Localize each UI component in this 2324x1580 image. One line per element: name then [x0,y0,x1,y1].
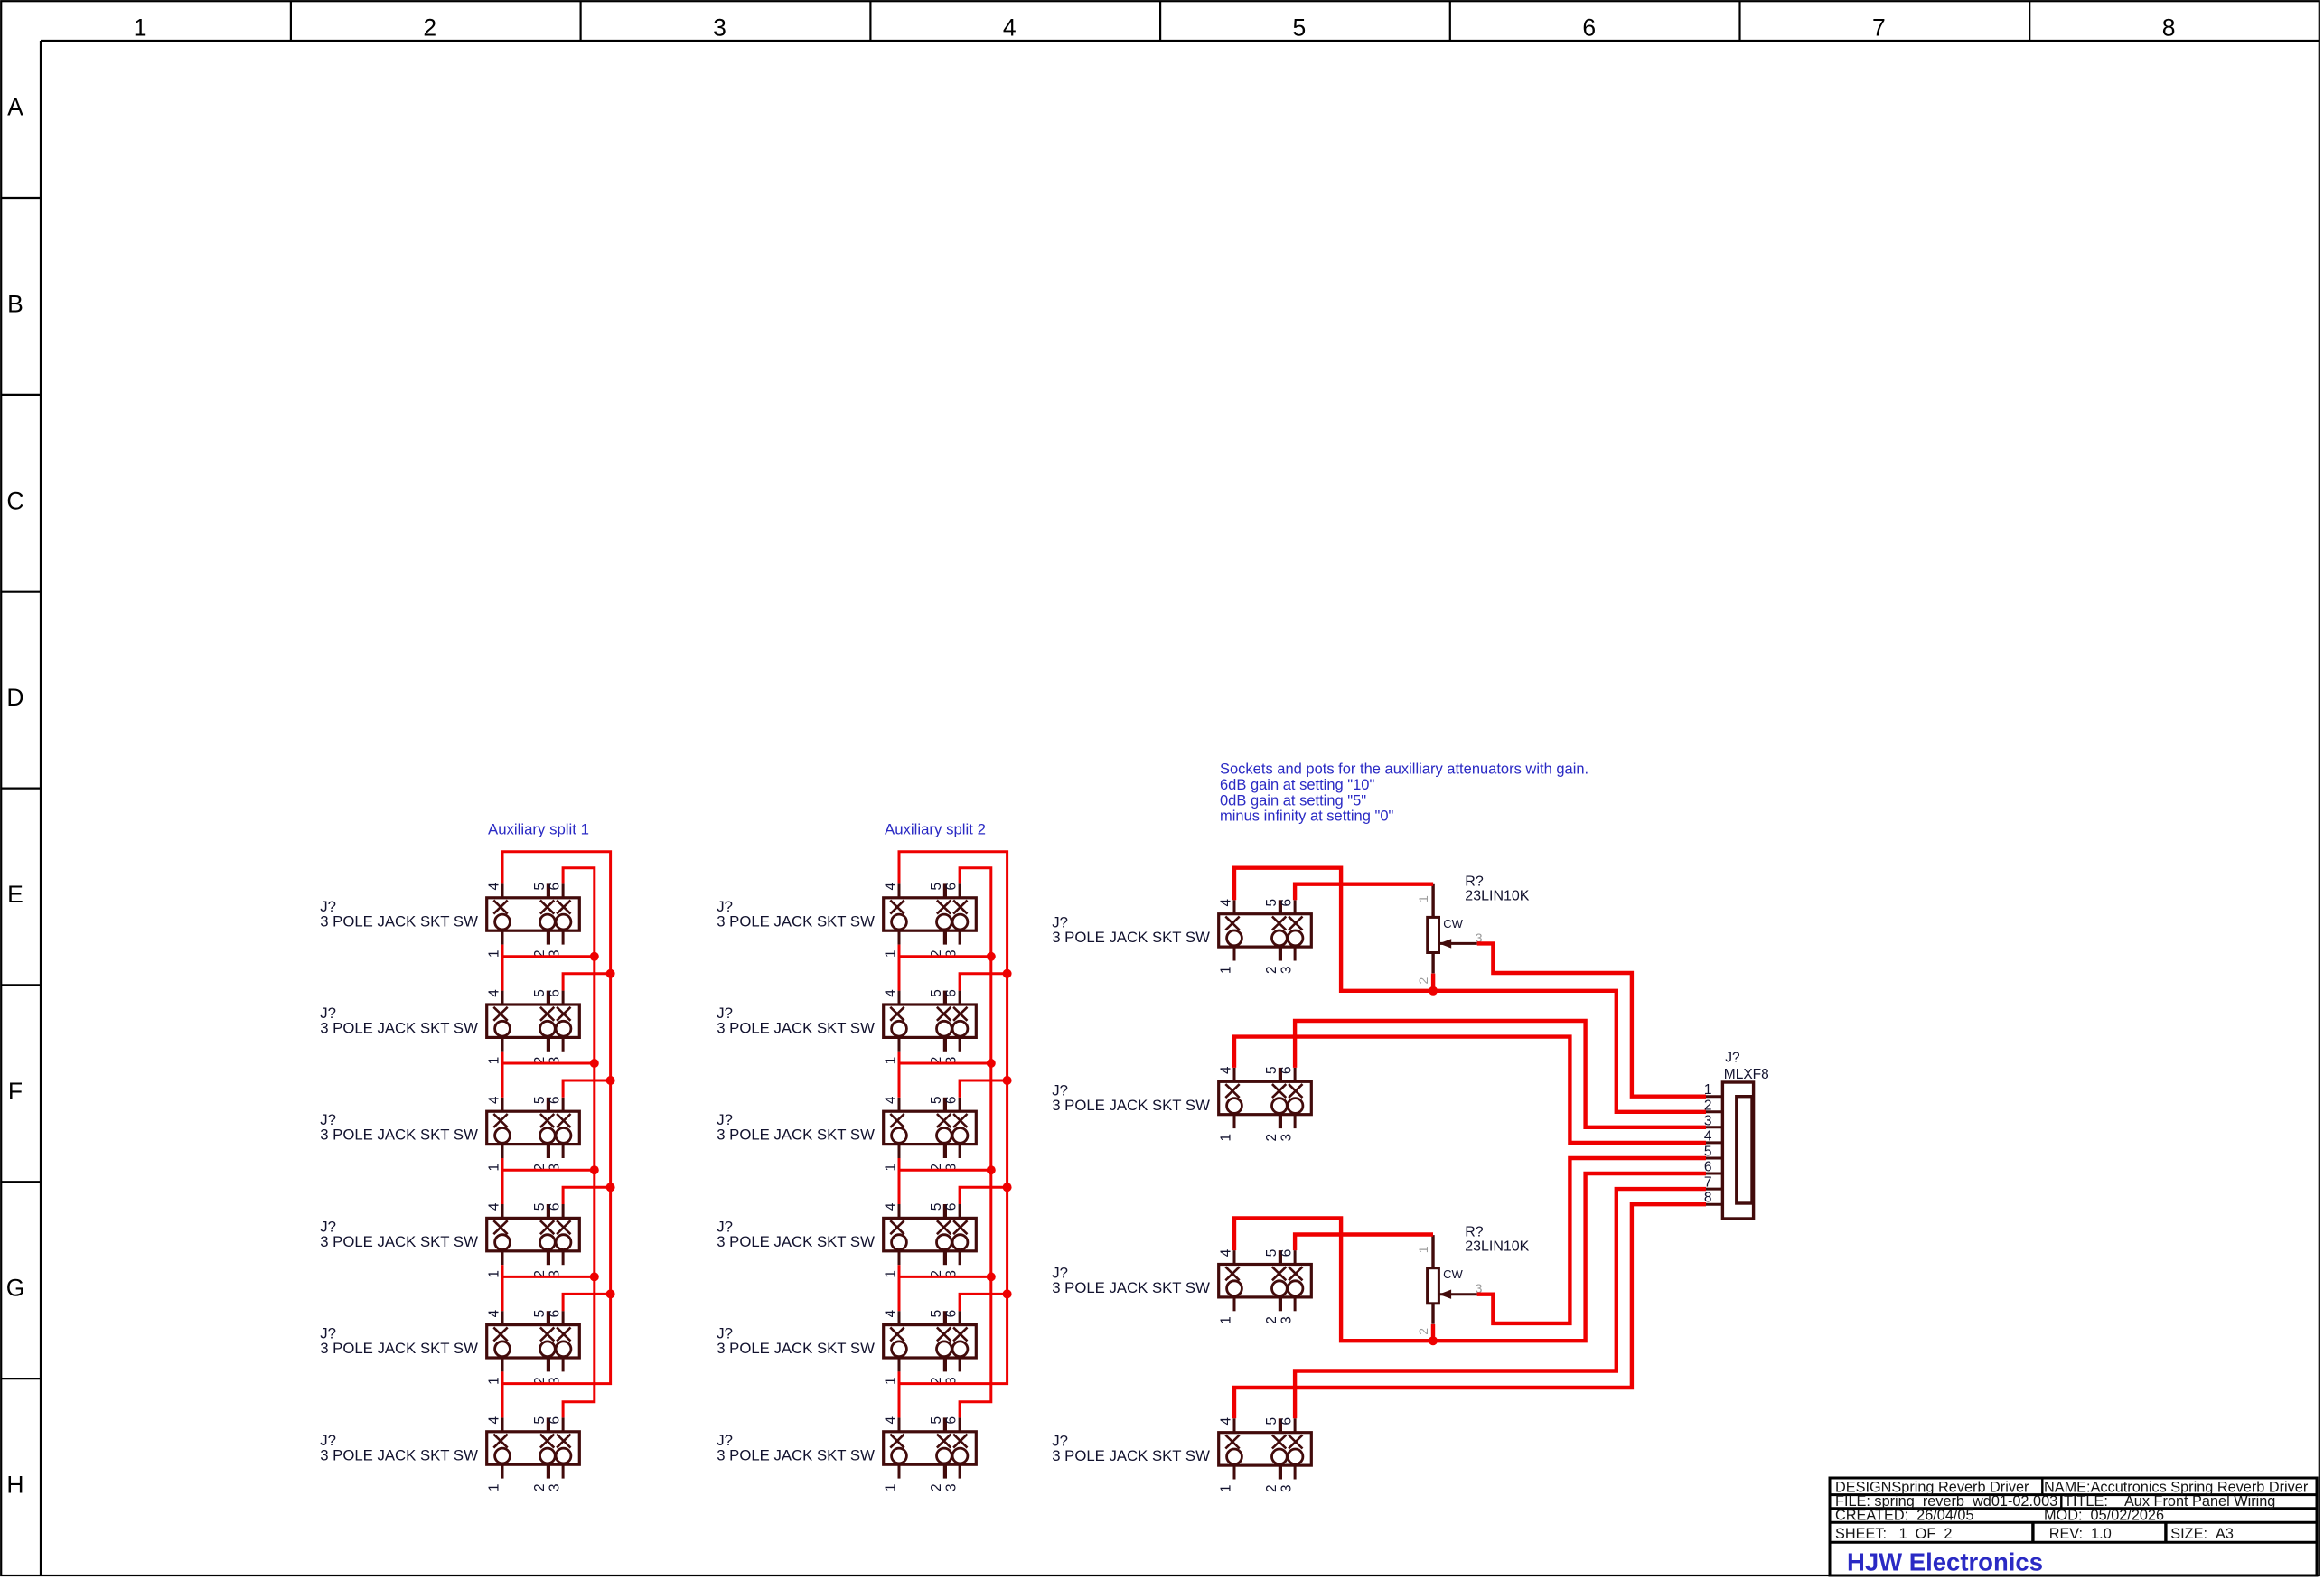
wire: split2 J3.1 to J4.4 chain [898,1158,901,1204]
wire: split1 J1 pin4 + right bus + bottom link [502,852,611,1384]
svg-text:CREATED: 26/04/05: CREATED: 26/04/05 [1835,1507,1974,1523]
svg-text:0dB gain at setting "5": 0dB gain at setting "5" [1220,792,1366,809]
wire: pot2 wiper pin3 to K pin5 [1477,1158,1706,1323]
column divider 4/5 [1159,1,1161,41]
column divider 2/3 [579,1,581,41]
svg-text:3 POLE JACK SKT SW: 3 POLE JACK SKT SW [320,1340,478,1357]
junction split2 right bus 4 [1003,1289,1012,1298]
svg-text:3: 3 [713,14,726,42]
column divider 6/7 [1738,1,1740,41]
wire: split2 chain3 branch to left bus [899,1169,991,1172]
svg-text:Sockets and pots for the auxil: Sockets and pots for the auxilliary atte… [1220,761,1588,777]
column divider 1/2 [290,1,292,41]
wire: split2 J5.6 riser to right bus [960,1294,1007,1311]
wire: split2 J4.6 riser to right bus [960,1187,1007,1204]
connector J? 3 POLE JACK SKT SW (aux split 1, row 3) [487,1096,580,1172]
connector pin 4 [1706,1141,1722,1144]
wire: split1 J2.1 to J3.4 chain [501,1052,504,1098]
svg-text:H: H [6,1472,23,1499]
row divider F/G [1,1181,41,1183]
row divider D/E [1,787,41,789]
junction pot1 pin2 [1429,986,1438,996]
svg-text:3 POLE JACK SKT SW: 3 POLE JACK SKT SW [1052,929,1210,946]
wire: split1 J5.6 riser to right bus [563,1294,611,1311]
wire: C3 pin4 to pot2 pin2 to K pin6 [1234,1173,1706,1341]
wire: split2 J2.6 riser to right bus [960,974,1007,991]
junction split1 left bus 4 [590,1272,599,1281]
svg-text:A: A [7,94,23,121]
wire: split2 J1 pin6 + left bus + bottom link [960,868,991,1418]
junction split2 right bus 1 [1003,969,1012,978]
row divider A/B [1,197,41,199]
title block [1830,1478,2317,1575]
wire: split2 chain2 branch to left bus [899,1062,991,1065]
svg-text:3 POLE JACK SKT SW: 3 POLE JACK SKT SW [717,912,875,930]
svg-text:6dB gain at setting "10": 6dB gain at setting "10" [1220,777,1374,793]
row divider G/H [1,1378,41,1379]
connector pin 3 [1706,1126,1722,1128]
connector J? 3 POLE JACK SKT SW (aux split 1, row 6) [487,1416,580,1492]
svg-text:3 POLE JACK SKT SW: 3 POLE JACK SKT SW [717,1233,875,1250]
connector J? 3 POLE JACK SKT SW (aux split 2, row 1) [884,883,977,958]
wire: split2 J5.1 to J6.4 chain [898,1371,901,1417]
wire: split1 J1 pin6 + left bus + bottom link [563,868,595,1418]
junction split2 left bus 2 [987,1059,996,1068]
wire: split1 J3.1 to J4.4 chain [501,1158,504,1204]
svg-text:F: F [8,1078,23,1105]
row divider C/D [1,591,41,593]
column divider 3/4 [869,1,871,41]
wire: split2 J4.1 to J5.4 chain [898,1265,901,1311]
svg-text:3 POLE JACK SKT SW: 3 POLE JACK SKT SW [717,1446,875,1463]
svg-text:E: E [7,881,23,908]
svg-text:3 POLE JACK SKT SW: 3 POLE JACK SKT SW [717,1340,875,1357]
wire: split2 chain4 branch to left bus [899,1276,991,1278]
junction pot2 pin2 [1429,1336,1438,1345]
svg-text:SHEET: 1 OF 2: SHEET: 1 OF 2 [1835,1526,1952,1542]
junction split2 right bus 2 [1003,1076,1012,1085]
wire: split1 chain1 branch to left bus [502,955,595,958]
wire: split1 J5.1 to J6.4 chain [501,1371,504,1417]
svg-text:HJW Electronics: HJW Electronics [1847,1548,2043,1576]
connector J? 3 POLE JACK SKT SW (attenuator row 1) [1219,898,1312,973]
wire: C2 pin4 to K pin4 [1234,1037,1706,1143]
svg-text:2: 2 [423,14,436,42]
svg-text:3 POLE JACK SKT SW: 3 POLE JACK SKT SW [320,1446,478,1463]
svg-text:R?: R? [1465,1225,1484,1240]
svg-text:REV: 1.0: REV: 1.0 [2049,1526,2112,1542]
connector J? 3 POLE JACK SKT SW (aux split 2, row 6) [884,1416,977,1492]
svg-text:MOD: 05/02/2026: MOD: 05/02/2026 [2044,1507,2164,1523]
svg-text:8: 8 [2162,14,2176,42]
wire: split1 chain3 branch to left bus [502,1169,595,1172]
svg-text:3 POLE JACK SKT SW: 3 POLE JACK SKT SW [320,1020,478,1037]
connector J? 3 POLE JACK SKT SW (aux split 1, row 2) [487,989,580,1065]
frame top strip line [41,40,2319,42]
potentiometer R? 23LIN10K #1 [1416,884,1483,985]
connector J? MLXF8 [1722,1082,1753,1219]
wire: pot2 pin2 stub bridge [1431,1324,1435,1341]
wire: split1 J1.1 to J2.4 chain [501,945,504,991]
junction split1 left bus 3 [590,1165,599,1174]
wire: split2 J2.1 to J3.4 chain [898,1052,901,1098]
wire: split1 J2.6 riser to right bus [563,974,611,991]
junction split2 right bus 3 [1003,1183,1012,1192]
connector J? 3 POLE JACK SKT SW (aux split 2, row 2) [884,989,977,1065]
connector J? 3 POLE JACK SKT SW (attenuator row 2) [1219,1066,1312,1142]
svg-text:Auxiliary split 1: Auxiliary split 1 [488,821,589,838]
wire: split2 J1.1 to J2.4 chain [898,945,901,991]
wire: split1 J3.6 riser to right bus [563,1080,611,1098]
potentiometer R? 23LIN10K #2 [1416,1235,1483,1335]
svg-text:6: 6 [1582,14,1596,42]
svg-text:3 POLE JACK SKT SW: 3 POLE JACK SKT SW [1052,1097,1210,1114]
svg-text:SIZE: A3: SIZE: A3 [2170,1526,2234,1542]
svg-text:R?: R? [1465,874,1484,889]
junction split1 right bus 3 [606,1183,615,1192]
svg-text:1: 1 [134,14,147,42]
svg-text:3 POLE JACK SKT SW: 3 POLE JACK SKT SW [717,1020,875,1037]
frame left strip line [40,41,42,1575]
junction split2 left bus 3 [987,1165,996,1174]
svg-text:3 POLE JACK SKT SW: 3 POLE JACK SKT SW [320,1127,478,1144]
svg-text:3 POLE JACK SKT SW: 3 POLE JACK SKT SW [1052,1279,1210,1296]
svg-text:3 POLE JACK SKT SW: 3 POLE JACK SKT SW [320,1233,478,1250]
wire: C2 pin6 to K pin3 [1295,1021,1706,1127]
connector J? 3 POLE JACK SKT SW (attenuator row 4) [1219,1416,1312,1492]
wire: split1 chain2 branch to left bus [502,1062,595,1065]
wire: split1 J4.6 riser to right bus [563,1187,611,1204]
wire: C1 pin4 to pot1 pin2 to K pin2 [1234,868,1706,1112]
wire: C3 pin6 to pot2 pin1 [1295,1235,1433,1251]
svg-text:J?: J? [1725,1050,1740,1065]
svg-text:MLXF8: MLXF8 [1724,1067,1769,1082]
column divider 7/8 [2029,1,2030,41]
svg-text:7: 7 [1872,14,1886,42]
connector J? 3 POLE JACK SKT SW (aux split 2, row 4) [884,1202,977,1278]
junction split2 left bus 1 [987,952,996,961]
wire: split2 J3.6 riser to right bus [960,1080,1007,1098]
wire: split2 chain1 branch to left bus [899,955,991,958]
svg-text:23LIN10K: 23LIN10K [1465,1239,1529,1255]
connector pin 7 [1706,1188,1722,1191]
svg-text:23LIN10K: 23LIN10K [1465,888,1529,903]
connector J? 3 POLE JACK SKT SW (attenuator row 3) [1219,1248,1312,1324]
connector J? 3 POLE JACK SKT SW (aux split 1, row 5) [487,1309,580,1385]
svg-text:3 POLE JACK SKT SW: 3 POLE JACK SKT SW [1052,1447,1210,1464]
connector J? 3 POLE JACK SKT SW (aux split 1, row 4) [487,1202,580,1278]
junction split1 right bus 1 [606,969,615,978]
row divider B/C [1,394,41,396]
junction split1 left bus 1 [590,952,599,961]
svg-text:3 POLE JACK SKT SW: 3 POLE JACK SKT SW [320,912,478,930]
wire: pot1 wiper pin3 to K pin1 [1477,943,1706,1096]
wire: pot1 pin2 stub bridge [1431,974,1435,991]
svg-text:G: G [6,1275,25,1302]
svg-text:C: C [6,487,23,514]
connector pin 8 [1706,1203,1722,1206]
wire: split1 J4.1 to J5.4 chain [501,1265,504,1311]
svg-text:4: 4 [1003,14,1017,42]
svg-text:D: D [6,684,23,711]
wire: C1 pin6 to pot1 pin1 [1295,884,1433,901]
connector pin 1 [1706,1095,1722,1098]
junction split1 right bus 4 [606,1289,615,1298]
wire: split2 J1 pin4 + right bus + bottom link [899,852,1007,1384]
svg-text:minus infinity at setting "0": minus infinity at setting "0" [1220,809,1394,825]
wire: C4 pin6 to K pin7 [1295,1189,1706,1418]
svg-text:3 POLE JACK SKT SW: 3 POLE JACK SKT SW [717,1127,875,1144]
row divider E/F [1,984,41,986]
connector J? 3 POLE JACK SKT SW (aux split 2, row 5) [884,1309,977,1385]
connector pin 2 [1706,1110,1722,1113]
svg-text:5: 5 [1293,14,1307,42]
connector pin 5 [1706,1157,1722,1160]
svg-text:B: B [7,291,23,318]
column divider 5/6 [1449,1,1451,41]
junction split1 left bus 2 [590,1059,599,1068]
connector J? 3 POLE JACK SKT SW (aux split 2, row 3) [884,1096,977,1172]
wire: C4 pin4 to K pin8 [1234,1204,1706,1418]
junction split1 right bus 2 [606,1076,615,1085]
wire: split1 chain4 branch to left bus [502,1276,595,1278]
junction split2 left bus 4 [987,1272,996,1281]
connector J? 3 POLE JACK SKT SW (aux split 1, row 1) [487,883,580,958]
svg-text:Auxiliary split 2: Auxiliary split 2 [885,821,986,838]
connector pin 6 [1706,1173,1722,1175]
